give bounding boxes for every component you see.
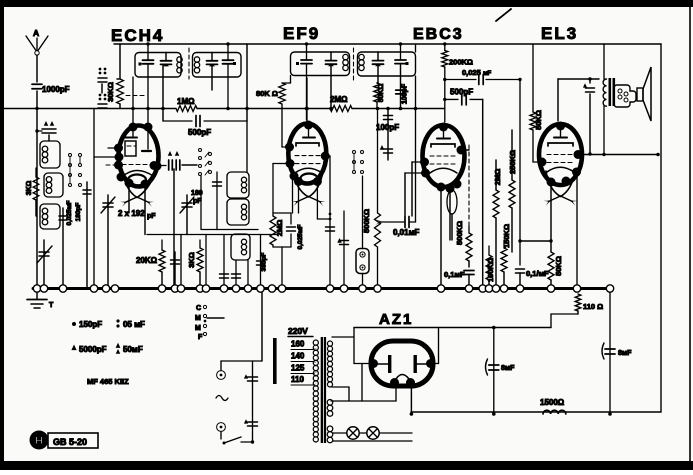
svg-text:0,01ᴍF: 0,01ᴍF (393, 228, 419, 237)
svg-text:7: 7 (576, 152, 580, 159)
svg-text:180: 180 (191, 190, 203, 197)
svg-text:A: A (33, 28, 39, 38)
svg-text:6: 6 (288, 144, 292, 151)
svg-text:05 ᴍF: 05 ᴍF (123, 320, 145, 329)
svg-text:7: 7 (323, 153, 327, 160)
svg-text:3: 3 (549, 179, 553, 186)
svg-text:0,1ᴍF: 0,1ᴍF (444, 270, 465, 279)
svg-text:500KΩ: 500KΩ (362, 209, 371, 233)
svg-text:8ᴍF: 8ᴍF (501, 365, 515, 372)
svg-text:110 Ω: 110 Ω (583, 302, 603, 311)
svg-text:8: 8 (307, 122, 311, 129)
svg-text:220V: 220V (288, 326, 308, 336)
svg-text:2: 2 (564, 178, 568, 185)
svg-text:8: 8 (442, 124, 446, 131)
svg-text:80K Ω: 80K Ω (256, 89, 278, 98)
svg-text:3: 3 (393, 380, 397, 387)
svg-text:2: 2 (409, 380, 413, 387)
svg-text:8ᴍF: 8ᴍF (618, 350, 632, 357)
svg-text:50KΩ: 50KΩ (554, 256, 563, 276)
svg-text:AZ1: AZ1 (379, 311, 413, 328)
svg-text:500pF: 500pF (188, 128, 211, 137)
svg-text:4: 4 (146, 124, 150, 131)
svg-text:5: 5 (117, 145, 121, 152)
svg-text:2: 2 (297, 179, 301, 186)
svg-text:2MΩ: 2MΩ (275, 220, 284, 236)
svg-text:150pF: 150pF (79, 320, 102, 329)
svg-text:250KΩ: 250KΩ (508, 150, 517, 174)
svg-text:7: 7 (117, 154, 121, 161)
svg-text:3: 3 (316, 179, 320, 186)
svg-text:180pF: 180pF (75, 203, 82, 222)
svg-text:0,025ᴍF: 0,025ᴍF (297, 224, 304, 249)
svg-text:50KΩ: 50KΩ (534, 110, 543, 130)
svg-text:T: T (49, 302, 54, 309)
svg-text:3: 3 (117, 162, 121, 169)
svg-text:100KΩ: 100KΩ (486, 258, 495, 282)
svg-text:1: 1 (455, 181, 459, 188)
svg-text:2: 2 (127, 180, 131, 187)
svg-text:1: 1 (119, 174, 123, 181)
svg-text:EL3: EL3 (541, 24, 578, 43)
svg-text:5: 5 (429, 361, 433, 368)
svg-text:3: 3 (143, 181, 147, 188)
svg-text:3KΩ: 3KΩ (26, 180, 33, 195)
svg-text:5: 5 (423, 159, 427, 166)
svg-text:0,025: 0,025 (462, 68, 481, 77)
svg-text:125: 125 (291, 364, 305, 373)
svg-text:EF9: EF9 (283, 24, 320, 43)
svg-text:pF: pF (147, 213, 156, 220)
svg-text:160: 160 (291, 340, 305, 349)
svg-text:200KΩ: 200KΩ (449, 58, 473, 67)
svg-text:6: 6 (424, 170, 428, 177)
svg-text:ECH4: ECH4 (111, 26, 164, 45)
svg-text:100pF: 100pF (376, 123, 399, 132)
svg-text:50ᴍF: 50ᴍF (123, 345, 143, 354)
svg-text:2MΩ: 2MΩ (330, 95, 348, 104)
svg-text:2MΩ: 2MΩ (493, 169, 502, 185)
svg-text:H: H (35, 435, 43, 447)
svg-text:1500Ω: 1500Ω (540, 398, 565, 407)
svg-text:4: 4 (575, 169, 579, 176)
svg-text:GB 5-20: GB 5-20 (53, 437, 87, 447)
svg-text:5: 5 (288, 161, 292, 168)
svg-text:C: C (196, 305, 201, 312)
svg-text:3: 3 (459, 147, 463, 154)
svg-text:5: 5 (372, 361, 376, 368)
svg-text:F: F (198, 334, 203, 341)
svg-text:500KΩ: 500KΩ (455, 221, 464, 245)
svg-text:5000pF: 5000pF (79, 345, 107, 354)
svg-text:1000pF: 1000pF (42, 85, 70, 94)
svg-text:2 x 192: 2 x 192 (118, 209, 145, 218)
svg-text:6: 6 (131, 124, 135, 131)
svg-text:20KΩ: 20KΩ (136, 256, 158, 265)
svg-text:50KΩ: 50KΩ (378, 83, 385, 102)
svg-text:pF: pF (193, 198, 202, 205)
svg-text:EBC3: EBC3 (413, 26, 464, 43)
svg-text:385pF: 385pF (261, 253, 268, 272)
svg-text:0,025ᴍF: 0,025ᴍF (66, 200, 73, 225)
svg-text:30KΩ: 30KΩ (106, 82, 115, 102)
svg-text:110: 110 (291, 375, 304, 384)
svg-text:1MΩ: 1MΩ (177, 97, 195, 106)
svg-text:ᴍF: ᴍF (483, 71, 491, 77)
svg-text:5: 5 (540, 159, 544, 166)
svg-text:M: M (195, 315, 201, 322)
svg-text:6: 6 (155, 163, 159, 170)
svg-text:8: 8 (559, 123, 563, 130)
svg-text:MF 465 KІІZ: MF 465 KІІZ (87, 377, 129, 386)
svg-text:M: M (195, 325, 201, 332)
svg-text:140: 140 (291, 352, 305, 361)
svg-text:100pF: 100pF (402, 83, 409, 104)
svg-text:0,1/ᴍF: 0,1/ᴍF (526, 269, 549, 278)
svg-text:150KΩ: 150KΩ (502, 224, 511, 248)
svg-text:3KΩ: 3KΩ (187, 252, 196, 268)
